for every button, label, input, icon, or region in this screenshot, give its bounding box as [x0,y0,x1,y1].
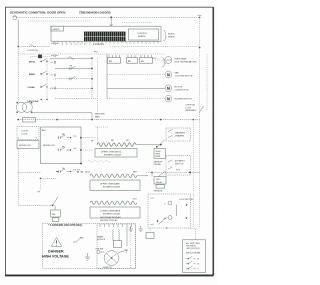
relay stack boxes [54,205,56,210]
connector block row (three plug boxes) [108,58,121,64]
center switch matrix row 4 [50,87,92,89]
scan noise overlay [0,0,1,1]
wire lower dashed bus y54 [18,53,165,55]
lock switch diagonal [199,106,203,112]
lower oven element coil E3 [90,201,137,205]
wire to fan motor [107,74,165,76]
switch door arc [30,45,36,47]
small fuse box on bus [23,118,36,122]
switch column left: row 1 [29,59,48,64]
pin ticks under box top [100,224,132,227]
wire drop right bus [199,17,201,47]
electronic control board U1 [51,26,161,41]
vertical join x97.5 [97,58,99,119]
node end of L1 bus [199,17,201,19]
node dot at right of y46.5 bus [199,47,201,49]
relay matrix box K1 [41,127,82,164]
brace and wire color label [163,30,166,40]
legend switch row 2 [186,261,196,263]
warning triangle [51,238,61,247]
door lock motor assembly dashed box [148,194,191,228]
wire top segment y178 [41,177,57,179]
center switch matrix row 2 [55,68,92,70]
oven sensor box [154,148,166,158]
border right thick edge [212,7,214,276]
wire to blower motor [107,98,165,100]
wire from E1 to right [136,144,161,146]
vertical join x92 [91,58,93,98]
blower motor symbol [165,95,172,102]
junction dots on mid bus [17,119,19,121]
arrow to burner [119,249,128,252]
right vertical dashed bus x207 [206,54,208,110]
DLB relay box [151,172,153,176]
switch column left: row 3 [28,84,48,89]
pins above plug row [109,55,152,57]
E3 label box [90,207,140,218]
left L-wire to lower area [17,149,19,206]
center switch matrix row 5 [55,97,98,99]
relay contact row 2 [58,141,95,165]
inner vertical dashed [130,248,132,268]
border frame [6,7,214,275]
lock contact 2 [168,216,172,220]
main mid dashed bus [18,119,199,121]
link between contacts [176,205,178,217]
lamp L1 symbol [165,57,172,64]
control board inner label box [129,29,159,40]
dots above E2 [77,171,78,172]
center switch matrix row 1 [50,57,92,59]
spark burner circle [104,251,119,266]
warming drawer dashed box lower [166,156,191,176]
wire door-switch row dashed [18,46,50,48]
thermostat switch diagonal [157,140,165,148]
E2 label box [90,180,140,191]
wire from M1 to center [32,112,92,114]
transformer vertical leads [126,227,128,246]
ground symbol left of burner [85,253,90,260]
motor double-loop symbol M1 [16,102,32,113]
wavy wire under E1 label [88,161,110,163]
wire horizontal y172 [18,171,40,173]
interlock solid box [17,141,39,149]
wire to drive motor [107,87,165,89]
center switch matrix row 3 [55,78,92,80]
door lock dashed box [17,127,39,140]
wire horizontal y205 [18,204,52,206]
border bottom thick edge [5,274,214,276]
legend box bottom right [183,240,206,272]
E1 label box [95,149,137,157]
connector pin pair P1-b [51,54,58,57]
TOD switch diagonal [159,171,167,177]
wire drop from bus junction to control [110,17,112,26]
wire drop from L1 to left column [17,20,19,47]
warming drawer dashed box upper [166,128,191,141]
transformer winding columns [112,230,115,241]
spark module dashed box [97,224,136,269]
wire dashed mid bus y46.5 right [110,46,200,48]
right vertical bus x199 down to main bus [199,48,201,120]
switch column left: row 2 [29,71,48,76]
wire top L1 bus dashed [17,16,199,18]
wire legend feed [191,228,196,239]
bake element coil E2 [90,174,137,178]
wire second dashed run right [122,22,152,24]
left vertical feeder for circles column [106,54,108,99]
vertical dashed connector column [46,58,48,100]
left vertical dashed bus [17,47,19,102]
relay contact row 1 [58,134,96,139]
burner box inner switch [73,237,81,242]
broil element coil E1 [97,143,136,147]
legend switch row 3 [186,266,196,268]
lock contact 1 [168,201,172,205]
small box inside spark module [114,241,122,248]
relay contact row 3 (below box) [56,168,81,173]
wire branch row lower [30,56,50,58]
connector pins along board bottom [54,41,158,43]
connector pin brackets right of switch rows [51,61,56,64]
latch switch diagonal lower [53,197,58,205]
right verticals [192,120,194,228]
wire to oven lamp [155,59,165,61]
feeder from bus to E1 [96,127,109,145]
brace right of plugs [162,58,165,67]
node junction left bus [17,46,19,48]
drive motor symbol [165,85,172,92]
legend switch row 1 [186,256,196,258]
small connector box right of spark area [146,233,154,239]
node junction on L1 bus [110,17,112,19]
lock switch diagonal in box [159,218,166,224]
heating element block (hatched) [84,32,126,42]
outer burner dashed box [43,224,136,269]
wire second dashed run left [28,20,90,22]
fan motor symbol [165,71,172,78]
wire E2 row to right bus dashed [137,175,148,177]
node L1 terminal circle [13,16,17,20]
connector pin pair P1-a [51,42,58,45]
terminal circle [97,250,100,253]
ground symbols above spark box [129,226,143,232]
